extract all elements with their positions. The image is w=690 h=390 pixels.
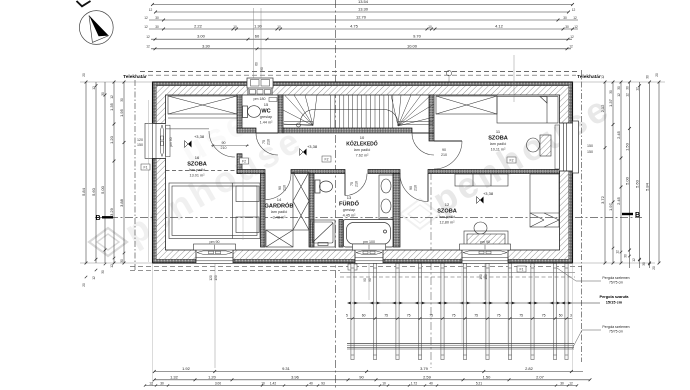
dimension column 5.84 right: [649, 82, 651, 268]
svg-text:210: 210: [355, 181, 359, 187]
section line vertical through pergola: [430, 172, 432, 368]
svg-text:12: 12: [144, 16, 148, 20]
svg-text:10: 10: [360, 135, 365, 140]
svg-text:13.30: 13.30: [358, 7, 369, 12]
window szoba12 bottom wall: [460, 244, 511, 263]
svg-text:75: 75: [407, 314, 411, 318]
vent marker wc: [269, 98, 277, 102]
svg-text:210: 210: [283, 185, 287, 191]
door szoba12: [427, 174, 429, 202]
svg-text:3.79: 3.79: [420, 366, 429, 371]
svg-text:2.45: 2.45: [616, 130, 621, 139]
svg-text:90: 90: [442, 148, 446, 152]
svg-text:12: 12: [636, 87, 640, 91]
svg-text:pm 100: pm 100: [363, 240, 375, 244]
svg-text:+3,38: +3,38: [307, 144, 318, 149]
dimension column outer right: [658, 82, 660, 263]
svg-text:10: 10: [261, 381, 265, 385]
toilet furdo: [315, 180, 333, 193]
svg-text:75: 75: [474, 314, 478, 318]
svg-text:30: 30: [617, 86, 621, 90]
svg-text:30: 30: [565, 25, 569, 29]
svg-text:FÜRDŐ: FÜRDŐ: [339, 201, 360, 208]
telekhatar dashed boundary top: [140, 71, 580, 73]
svg-text:1.20: 1.20: [208, 374, 217, 379]
svg-text:B: B: [635, 212, 640, 219]
svg-text:90: 90: [359, 374, 364, 379]
svg-text:5.60: 5.60: [91, 187, 96, 196]
svg-text:160: 160: [479, 274, 483, 280]
dimension row 2.22 1.30 4.75 4.12: [149, 28, 578, 30]
wall WC left: [237, 95, 242, 131]
svg-text:12: 12: [569, 381, 573, 385]
svg-text:12: 12: [92, 276, 96, 280]
svg-text:75/75 cm: 75/75 cm: [609, 281, 623, 285]
svg-text:KÖZLEKEDŐ: KÖZLEKEDŐ: [346, 141, 378, 148]
roof overhang dashed lines bottom: [130, 265, 582, 267]
dimension column 2.45 2.45 right: [620, 82, 622, 263]
svg-text:10.00: 10.00: [407, 43, 418, 48]
svg-text:1.35: 1.35: [109, 102, 114, 111]
svg-text:30: 30: [155, 25, 159, 29]
pergola spacing dimension row: [347, 318, 572, 320]
svg-text:3.29: 3.29: [109, 207, 114, 216]
door WC: [256, 132, 278, 134]
svg-text:210: 210: [221, 146, 227, 150]
svg-text:F2: F2: [242, 160, 246, 164]
svg-text:1.50: 1.50: [624, 142, 629, 151]
marker F1 bottom: [517, 266, 526, 272]
window furdo bottom wall: [353, 244, 386, 263]
svg-text:B: B: [95, 215, 100, 222]
svg-text:60: 60: [255, 34, 260, 39]
pergola top rail solid: [340, 272, 575, 274]
svg-text:30: 30: [120, 259, 124, 263]
svg-text:12: 12: [149, 381, 153, 385]
svg-text:10: 10: [277, 25, 281, 29]
svg-text:150: 150: [587, 150, 593, 154]
svg-text:12: 12: [632, 258, 636, 262]
svg-text:1.30: 1.30: [254, 24, 263, 29]
right edge extension line: [573, 81, 666, 83]
extension lines szoba12 window edges: [461, 263, 463, 345]
dimension column 2.12 3.72 right: [604, 82, 606, 263]
svg-text:12: 12: [574, 25, 578, 29]
bathtub furdo: [344, 220, 394, 248]
svg-text:210: 210: [414, 185, 418, 191]
svg-text:12: 12: [110, 95, 114, 99]
svg-text:75: 75: [452, 314, 456, 318]
level mark kozlekedo +3,38: [300, 149, 307, 156]
svg-text:1.97: 1.97: [608, 202, 613, 211]
svg-text:lam padló: lam padló: [490, 142, 506, 146]
svg-text:lam padló: lam padló: [439, 215, 455, 219]
pergola vertical reference 90: [368, 263, 370, 300]
shower furdo: [311, 220, 336, 247]
dimension column 1.37 1.97 right: [612, 82, 614, 263]
svg-text:12: 12: [601, 75, 605, 79]
svg-text:12: 12: [149, 8, 153, 12]
dimension column 1.35 1.20 3.29 left: [113, 82, 115, 263]
svg-text:5.00: 5.00: [100, 185, 105, 194]
svg-text:1.95: 1.95: [119, 108, 124, 117]
svg-text:14: 14: [277, 197, 282, 202]
svg-text:13.01 m²: 13.01 m²: [190, 174, 206, 178]
szoba16 upper rail line: [166, 128, 209, 130]
dimension row 13.30: [156, 11, 569, 13]
level mark szoba12 +3,38: [477, 197, 484, 204]
closet gardrob right strip: [293, 172, 309, 230]
dimension column 1.95 3.88 left: [123, 82, 125, 263]
svg-text:75: 75: [519, 314, 523, 318]
svg-text:12: 12: [570, 35, 574, 39]
svg-text:13.54: 13.54: [358, 0, 369, 4]
svg-text:12: 12: [92, 86, 96, 90]
dimension row 13.54: [153, 4, 573, 6]
wardrobe szoba12 right: [530, 174, 559, 227]
svg-text:F2: F2: [325, 158, 329, 162]
svg-text:150: 150: [137, 143, 143, 147]
bottom dimension row 1.92 9.31 3.79 2.82: [154, 371, 583, 373]
svg-text:30: 30: [624, 254, 628, 258]
svg-text:Pergola szelemen: Pergola szelemen: [602, 325, 629, 329]
svg-text:2.07: 2.07: [536, 374, 545, 379]
closet szoba16 top: [168, 96, 237, 118]
bed szoba16: [169, 183, 260, 239]
svg-text:75: 75: [497, 314, 501, 318]
extension line building corner left: [152, 263, 154, 386]
bed szoba11: [497, 97, 558, 124]
svg-text:30: 30: [609, 90, 613, 94]
svg-text:16: 16: [195, 155, 200, 160]
svg-text:pm 90: pm 90: [480, 240, 490, 244]
svg-text:5: 5: [346, 314, 348, 318]
dimension column 5.60 left: [95, 82, 97, 263]
svg-text:13: 13: [347, 195, 352, 200]
svg-text:12: 12: [616, 250, 620, 254]
corner check mark: [77, 1, 91, 6]
wall stub shower-bathtub: [339, 220, 343, 248]
svg-text:F1: F1: [520, 268, 524, 272]
partition wall main segments: [237, 170, 265, 174]
dimension column 1.50 5.00 right: [629, 82, 631, 268]
watermark Openhouse diamond logo 1: [89, 228, 127, 256]
svg-text:9.70: 9.70: [413, 34, 422, 39]
svg-text:75: 75: [262, 140, 266, 144]
svg-text:75: 75: [542, 314, 546, 318]
svg-text:1.72: 1.72: [411, 381, 417, 385]
door szoba11: [434, 140, 462, 142]
svg-text:2.59: 2.59: [423, 374, 432, 379]
svg-text:40: 40: [429, 381, 433, 385]
svg-text:30: 30: [120, 98, 124, 102]
dimension row 3.00 60 9.70: [151, 38, 572, 40]
dimension column 5.84 left: [85, 82, 87, 263]
stairs middle treads: [331, 95, 393, 128]
svg-text:12,80 m²: 12,80 m²: [440, 221, 456, 225]
closet szoba11 top: [436, 96, 497, 114]
telekhatar dash-dot vertical right: [581, 70, 583, 362]
svg-text:12: 12: [144, 25, 148, 29]
svg-text:SZOBA: SZOBA: [488, 136, 508, 142]
pergola rafters: [351, 264, 568, 360]
toilet wc15: [243, 106, 261, 118]
svg-text:3: 3: [570, 314, 572, 318]
door furdo: [344, 174, 346, 196]
svg-text:90: 90: [260, 67, 264, 71]
dimension row 12.70: [149, 19, 578, 21]
svg-text:2.12: 2.12: [600, 104, 605, 113]
svg-text:pm 180: pm 180: [254, 97, 266, 101]
svg-text:lam padló: lam padló: [189, 168, 205, 172]
svg-text:210: 210: [441, 153, 447, 157]
svg-text:90: 90: [409, 186, 413, 190]
svg-text:2.22: 2.22: [194, 24, 203, 29]
double washbasin furdo: [379, 175, 393, 219]
wall stair-szoba11: [429, 95, 434, 141]
svg-text:12: 12: [146, 35, 150, 39]
svg-text:1.42: 1.42: [270, 381, 276, 385]
dimension column 5.60 right: [639, 82, 641, 268]
svg-text:4.75: 4.75: [350, 24, 359, 29]
svg-text:93: 93: [321, 381, 325, 385]
dimension column 5.00 left: [104, 82, 106, 263]
svg-text:1.92: 1.92: [182, 366, 191, 371]
svg-text:pm 90: pm 90: [169, 137, 173, 146]
svg-text:30: 30: [563, 16, 567, 20]
wall WC-stair: [278, 95, 283, 133]
svg-text:10,11 m²: 10,11 m²: [491, 148, 506, 152]
marker F1 pergola left: [348, 264, 357, 270]
svg-text:12: 12: [110, 264, 114, 268]
svg-text:20: 20: [82, 73, 86, 77]
watermark Openhouse diamond logo 2: [400, 199, 440, 229]
svg-text:50: 50: [559, 314, 563, 318]
boundary survey point marker: [446, 71, 451, 76]
svg-text:90: 90: [278, 186, 282, 190]
door gardrob: [264, 174, 266, 200]
svg-text:12: 12: [617, 93, 621, 97]
svg-text:1.44 m²: 1.44 m²: [260, 121, 274, 125]
svg-text:60: 60: [255, 62, 259, 66]
svg-text:lam padló: lam padló: [271, 210, 287, 214]
closet gardrob bottom: [266, 230, 293, 247]
svg-text:lam padló: lam padló: [354, 148, 370, 152]
stairs walk line: [297, 109, 399, 127]
extension line door1: [242, 174, 244, 241]
svg-text:5.21: 5.21: [476, 381, 482, 385]
svg-text:15: 15: [264, 102, 269, 107]
marker F2 kozlekedo: [322, 156, 331, 162]
svg-text:75: 75: [384, 314, 388, 318]
telekhatar dash-dot vertical left: [134, 80, 136, 272]
svg-text:2.82: 2.82: [525, 366, 534, 371]
svg-text:Telekhatár: Telekhatár: [123, 74, 147, 80]
marker F2 szoba11: [507, 157, 516, 163]
svg-text:120: 120: [209, 275, 213, 281]
svg-text:greslap: greslap: [343, 208, 355, 212]
wall stub szoba16 corridor: [237, 154, 242, 174]
pergola beam bottom: [347, 343, 574, 345]
svg-text:SZOBA: SZOBA: [437, 209, 457, 215]
stairs lower flight edges: [284, 122, 433, 125]
section line B-B horizontal: [95, 217, 642, 219]
wall WC bottom: [237, 128, 256, 133]
svg-text:1.50: 1.50: [483, 374, 492, 379]
desk and chair szoba11: [527, 135, 552, 156]
svg-text:30: 30: [155, 16, 159, 20]
svg-text:150: 150: [587, 144, 593, 148]
exterior wall hatched core: [156, 86, 569, 260]
svg-text:90: 90: [363, 278, 367, 282]
svg-text:9.31: 9.31: [282, 366, 291, 371]
svg-text:Pergola szarufa: Pergola szarufa: [600, 294, 630, 299]
svg-text:150: 150: [214, 275, 218, 281]
section line vertical A: [335, 0, 337, 390]
svg-text:Telekhatár: Telekhatár: [577, 74, 601, 80]
svg-text:SZOBA: SZOBA: [187, 162, 207, 168]
svg-text:+3,38: +3,38: [194, 134, 205, 139]
compass north arrow: [79, 11, 113, 45]
shelf szoba12 top: [455, 174, 508, 186]
svg-text:5.84: 5.84: [81, 187, 86, 196]
svg-text:120: 120: [137, 138, 143, 142]
svg-text:12: 12: [573, 16, 577, 20]
svg-text:2.45: 2.45: [616, 196, 621, 205]
svg-text:+3,38: +3,38: [483, 191, 494, 196]
svg-text:75/75 cm: 75/75 cm: [609, 330, 623, 334]
svg-text:4.12: 4.12: [495, 24, 504, 29]
dimension row 3.30 10.00: [151, 48, 571, 50]
svg-text:3.30: 3.30: [202, 43, 211, 48]
svg-text:210: 210: [267, 139, 271, 145]
svg-text:60: 60: [362, 314, 366, 318]
door szoba16: [209, 131, 235, 157]
pergola top rail dashed: [340, 276, 575, 278]
window szoba16 left wall: [145, 123, 170, 158]
svg-text:12.70: 12.70: [356, 15, 367, 20]
svg-text:12: 12: [569, 45, 573, 49]
svg-text:WC: WC: [261, 109, 270, 115]
exterior wall outlines: [153, 82, 573, 263]
svg-text:F1: F1: [144, 166, 148, 170]
svg-text:3.48 m²: 3.48 m²: [273, 216, 287, 220]
svg-text:7.62 m²: 7.62 m²: [356, 154, 370, 158]
wall gardrob left: [261, 174, 266, 248]
svg-text:3.00: 3.00: [215, 381, 221, 385]
svg-text:pm 90: pm 90: [210, 240, 220, 244]
svg-text:20: 20: [652, 266, 656, 270]
left secondary boundary line: [148, 100, 150, 262]
svg-text:3.00: 3.00: [197, 34, 206, 39]
svg-text:30: 30: [560, 381, 564, 385]
extension line building corner right: [572, 263, 574, 372]
pergola vertical reference 150: [484, 263, 486, 300]
svg-text:30: 30: [646, 75, 650, 79]
svg-text:5.84: 5.84: [644, 182, 649, 191]
marker F left: [141, 164, 150, 170]
svg-text:GARDRÓB: GARDRÓB: [265, 202, 294, 210]
wall under stairs: [283, 128, 412, 133]
window szoba16 bottom wall: [194, 244, 236, 263]
svg-text:20: 20: [82, 283, 86, 287]
svg-text:90: 90: [368, 278, 372, 282]
window reference line 120 150: [214, 263, 216, 368]
door stairs entry: [412, 132, 434, 134]
svg-text:30: 30: [101, 270, 105, 274]
svg-text:Pergola szelemen: Pergola szelemen: [602, 276, 629, 280]
svg-text:1.20: 1.20: [109, 135, 114, 144]
svg-text:12: 12: [445, 202, 450, 207]
svg-text:10: 10: [382, 381, 386, 385]
pergola dimension line with arrows: [352, 302, 600, 304]
wall gardrob-furdo: [309, 174, 314, 248]
stairs winder fan right: [391, 95, 434, 126]
window szoba11 right wall: [555, 121, 579, 173]
svg-text:40: 40: [309, 381, 313, 385]
svg-text:3.72: 3.72: [600, 195, 605, 204]
svg-text:1.37: 1.37: [608, 98, 613, 107]
svg-text:3.96: 3.96: [291, 374, 300, 379]
svg-text:10: 10: [428, 25, 432, 29]
svg-text:75: 75: [429, 314, 433, 318]
svg-text:greslap: greslap: [260, 115, 272, 119]
svg-text:10: 10: [233, 25, 237, 29]
marker F2 szoba16: [240, 158, 249, 164]
svg-text:75: 75: [350, 182, 354, 186]
svg-text:30: 30: [642, 262, 646, 266]
room boundary dashed szoba16: [166, 170, 237, 172]
exterior wall insulation band: [153, 82, 573, 263]
bottom dimension row 1.32 1.20 3.96 90 2.59 1.50 2.07: [154, 379, 590, 381]
svg-text:12: 12: [146, 45, 150, 49]
svg-text:F2: F2: [510, 159, 514, 163]
extension line szoba11 closet: [513, 55, 515, 102]
svg-text:30: 30: [626, 86, 630, 90]
svg-text:30: 30: [160, 381, 164, 385]
window wc top wall: [247, 78, 273, 95]
svg-text:12: 12: [626, 93, 630, 97]
svg-text:5.60: 5.60: [634, 179, 639, 188]
dimension extension line top wc window: [260, 8, 262, 78]
svg-text:4.45 m²: 4.45 m²: [343, 214, 357, 218]
svg-text:12: 12: [572, 8, 576, 12]
level mark szoba16 +3,38: [185, 141, 192, 148]
bottom dimension row small numbers: [145, 385, 577, 387]
svg-text:5.00: 5.00: [624, 176, 629, 185]
svg-text:30: 30: [101, 92, 105, 96]
svg-text:90: 90: [222, 141, 226, 145]
wall furdo-szoba12: [393, 174, 400, 248]
stairs winder fan left: [283, 95, 317, 126]
dresser and chair szoba12: [464, 222, 508, 249]
svg-text:150: 150: [484, 274, 488, 280]
svg-text:3.88: 3.88: [119, 198, 124, 207]
svg-text:1.32: 1.32: [170, 374, 179, 379]
left edge extension line: [80, 81, 153, 83]
svg-text:20: 20: [655, 73, 659, 77]
svg-text:15/15 cm: 15/15 cm: [606, 300, 623, 305]
